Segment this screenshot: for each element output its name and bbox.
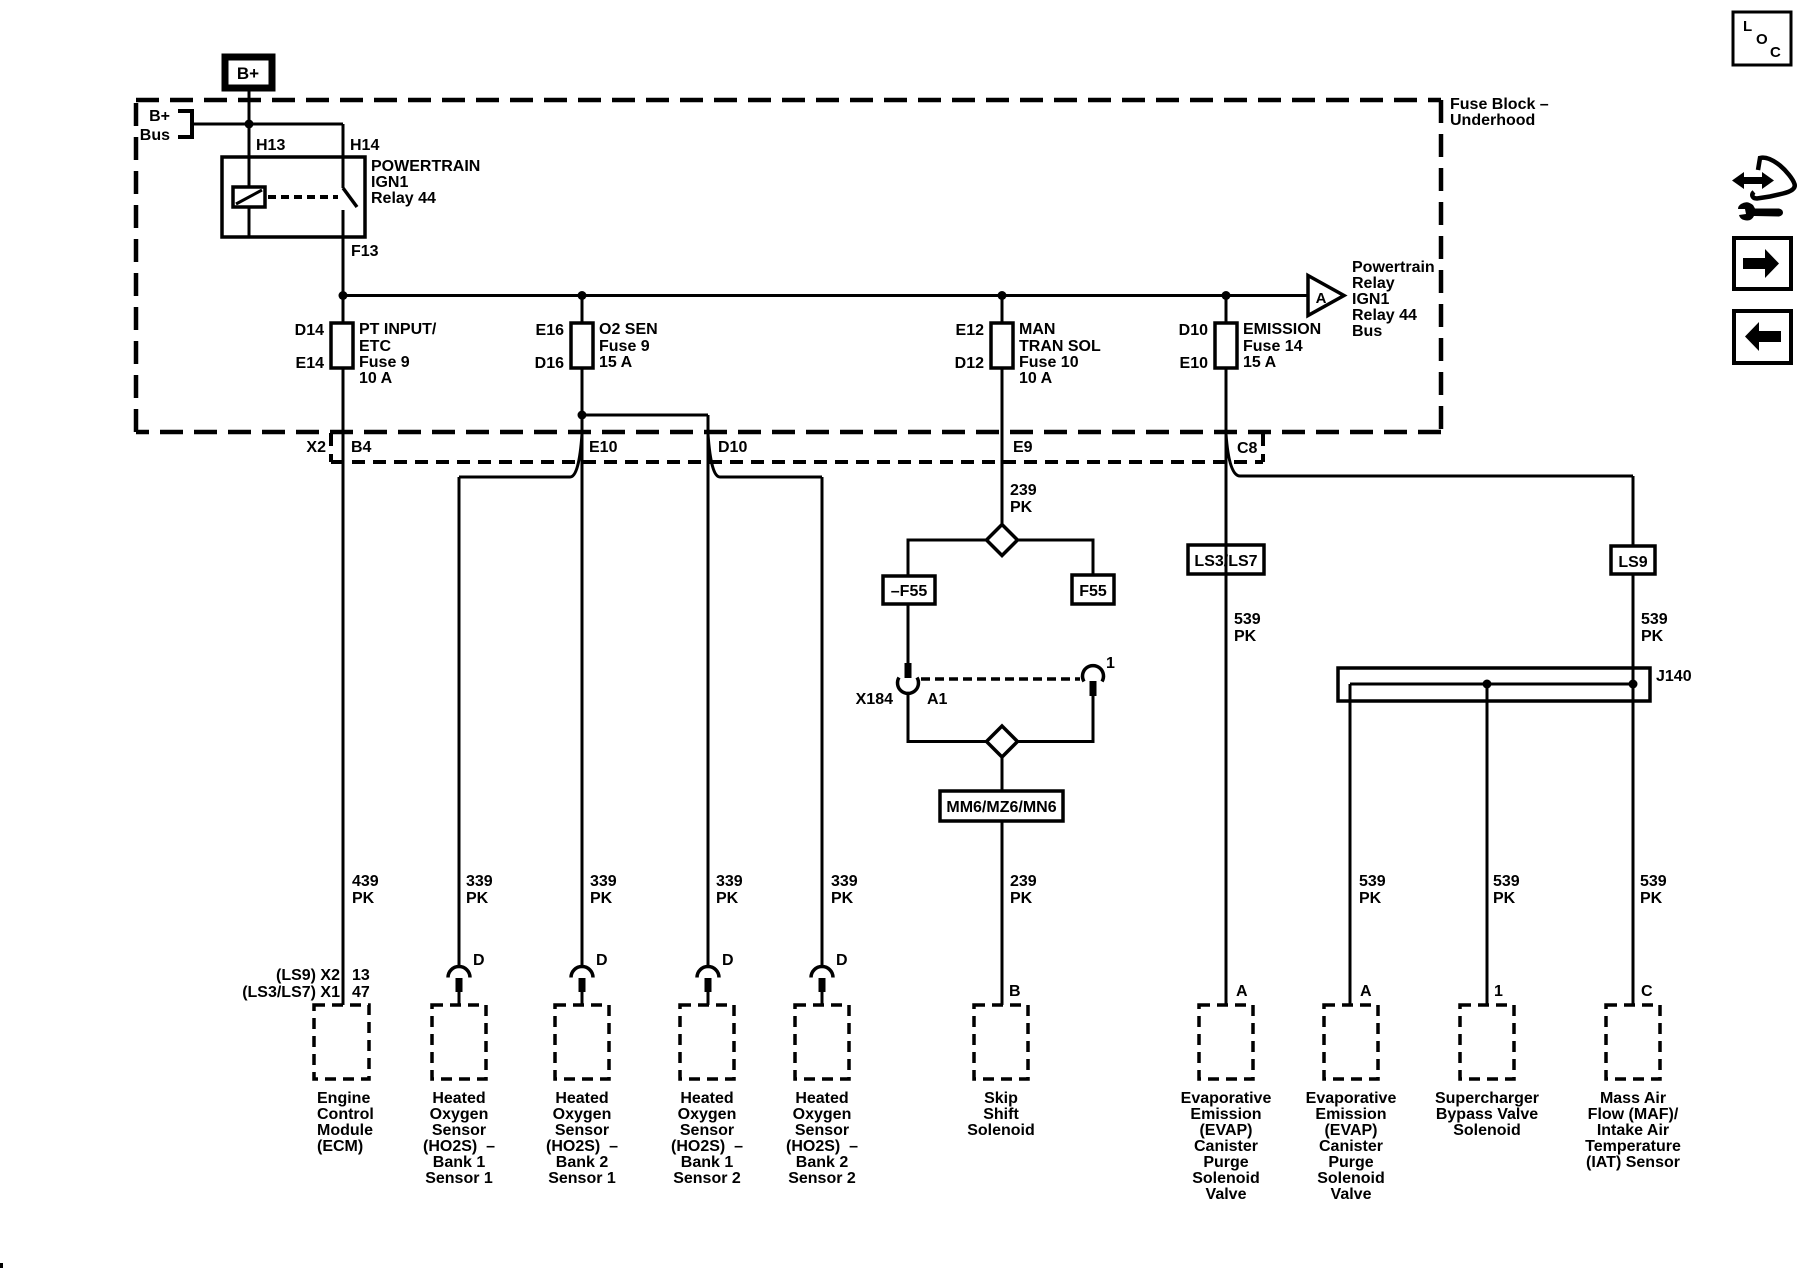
svg-text:Purge: Purge (1203, 1154, 1248, 1171)
wire diamond to -F55 branch (908, 540, 987, 576)
wire label 339 PK (HO2S B2S1) (590, 873, 617, 907)
ECM dashed box (314, 1005, 369, 1079)
svg-text:Oxygen: Oxygen (553, 1106, 612, 1123)
svg-text:O2 SEN: O2 SEN (599, 321, 658, 338)
wire EMISSION fuse to C8 and LS3/LS7 (column x1226) (1225, 368, 1228, 1005)
fuse PT INPUT/ETC Fuse 9 10A (295, 296, 437, 388)
svg-text:ETC: ETC (359, 338, 391, 355)
svg-text:Solenoid: Solenoid (1317, 1170, 1385, 1187)
junction dot at B+ wire (245, 120, 254, 129)
svg-text:Heated: Heated (432, 1090, 485, 1107)
svg-text:B+: B+ (149, 108, 170, 125)
MAF/IAT sensor label (1585, 1090, 1681, 1171)
svg-text:(EVAP): (EVAP) (1324, 1122, 1377, 1139)
svg-text:Bank 2: Bank 2 (556, 1154, 609, 1171)
svg-text:H14: H14 (350, 137, 379, 154)
J140 internal bus wire (1350, 683, 1633, 686)
wire HO2S1 column x459 (458, 477, 461, 966)
svg-text:539: 539 (1359, 873, 1386, 890)
relay switch contact (343, 188, 357, 207)
svg-text:D16: D16 (535, 355, 564, 372)
svg-text:Sensor 2: Sensor 2 (788, 1170, 856, 1187)
wire label 239 PK (skip shift) (1010, 873, 1037, 907)
HO2S B2S1 label (546, 1090, 618, 1187)
svg-text:Sensor 2: Sensor 2 (673, 1170, 741, 1187)
svg-text:Oxygen: Oxygen (430, 1106, 489, 1123)
svg-text:Relay: Relay (1352, 275, 1395, 292)
svg-text:D: D (596, 952, 608, 969)
svg-text:A: A (1236, 983, 1248, 1000)
forward arrow box (1734, 238, 1791, 289)
svg-text:539: 539 (1641, 611, 1668, 628)
svg-text:D12: D12 (955, 355, 984, 372)
svg-text:X184: X184 (856, 691, 893, 708)
svg-text:E12: E12 (956, 322, 985, 339)
connector X184 right pin (male) (1090, 681, 1097, 696)
HO2S4 inline connector (pin D) (811, 952, 848, 1005)
wire diamond to MM6 box (1001, 757, 1004, 791)
wire X184 left to lower diamond (908, 692, 987, 742)
EVAP purge valve 2 label (1306, 1090, 1397, 1203)
wire PT fuse to ECM (column x343) (342, 368, 345, 1005)
svg-text:539: 539 (1493, 873, 1520, 890)
svg-text:47: 47 (352, 984, 370, 1001)
wire label 339 PK (HO2S B1S1) (466, 873, 493, 907)
svg-text:Bus: Bus (1352, 323, 1382, 340)
wire J140 center exit to supercharger bypass (1486, 684, 1489, 1005)
wire B+ down to relay coil pin H13 (248, 88, 251, 187)
svg-text:339: 339 (590, 873, 617, 890)
svg-text:PK: PK (716, 890, 739, 907)
connector X184 left pin (male) (905, 663, 912, 678)
junction dot bus at EMISSION fuse (1222, 291, 1231, 300)
skip shift solenoid label (967, 1090, 1035, 1139)
svg-text:Purge: Purge (1328, 1154, 1373, 1171)
svg-text:10 A: 10 A (359, 370, 393, 387)
svg-text:LS3/LS7: LS3/LS7 (1194, 553, 1257, 570)
svg-text:439: 439 (352, 873, 379, 890)
svg-text:539: 539 (1640, 873, 1667, 890)
ECM pin labels (LS9) X2 13 / (LS3/LS7) X1 47 (242, 967, 370, 1001)
wire coil bottom to relay box bottom (248, 207, 251, 237)
svg-text:O: O (1756, 31, 1768, 48)
svg-text:E14: E14 (296, 355, 325, 372)
svg-text:Sensor: Sensor (432, 1122, 486, 1139)
svg-text:EMISSION: EMISSION (1243, 321, 1321, 338)
svg-text:Fuse 10: Fuse 10 (1019, 354, 1079, 371)
ECM label (317, 1090, 374, 1155)
relay coil-to-switch dashed link (268, 195, 338, 199)
wire -F55 to connector X184 (907, 604, 910, 664)
svg-text:PK: PK (590, 890, 613, 907)
svg-text:Canister: Canister (1194, 1138, 1258, 1155)
svg-text:Oxygen: Oxygen (678, 1106, 737, 1123)
junction dot J140 center (1483, 680, 1492, 689)
wire label 539 PK (supercharger) (1493, 873, 1520, 907)
svg-text:PK: PK (1234, 628, 1257, 645)
svg-text:E16: E16 (536, 322, 565, 339)
svg-text:Canister: Canister (1319, 1138, 1383, 1155)
wire B+ Bus to H14 (192, 123, 343, 126)
wire label 539 PK (EVAP 2) (1359, 873, 1386, 907)
svg-text:PK: PK (466, 890, 489, 907)
svg-text:C: C (1770, 44, 1781, 61)
svg-text:Bank 1: Bank 1 (433, 1154, 486, 1171)
option box MM6/MZ6/MN6 (940, 791, 1063, 821)
svg-text:15 A: 15 A (1243, 354, 1277, 371)
HO2S3 inline connector (pin D) (697, 952, 734, 1005)
svg-text:(LS9) X2: (LS9) X2 (276, 967, 340, 984)
relay pin labels H13 H14 F13 (256, 137, 379, 260)
svg-text:Control: Control (317, 1106, 374, 1123)
wire C8 branch to LS9 (jog) (1226, 434, 1633, 476)
connector X184 mating dashed line (921, 677, 1080, 681)
page corner mark (0, 1263, 3, 1268)
svg-text:1: 1 (1106, 655, 1115, 672)
EVAP purge valve 1 dashed box (1199, 1005, 1253, 1079)
relay coil (233, 187, 265, 207)
HO2S B2S2 label (786, 1090, 858, 1187)
svg-text:L: L (1743, 18, 1752, 35)
svg-text:PT INPUT/: PT INPUT/ (359, 321, 437, 338)
svg-text:PK: PK (1010, 499, 1033, 516)
wire label 339 PK (HO2S B1S2) (716, 873, 743, 907)
svg-text:Heated: Heated (680, 1090, 733, 1107)
wire label 339 PK (HO2S B2S2) (831, 873, 858, 907)
svg-text:Fuse 9: Fuse 9 (599, 338, 650, 355)
B+ Bus tap bracket (140, 108, 343, 144)
skip shift solenoid dashed box (974, 1005, 1028, 1079)
svg-text:339: 339 (716, 873, 743, 890)
wire label 439 PK (ECM) (352, 873, 379, 907)
Powertrain Relay IGN1 Relay 44 Bus label (1352, 259, 1435, 340)
wire HO2S4 column x822 (821, 477, 824, 966)
svg-text:339: 339 (831, 873, 858, 890)
svg-text:(IAT) Sensor: (IAT) Sensor (1586, 1154, 1680, 1171)
svg-text:Evaporative: Evaporative (1181, 1090, 1272, 1107)
svg-text:PK: PK (352, 890, 375, 907)
MAF/IAT sensor dashed box (1606, 1005, 1660, 1079)
svg-text:E10: E10 (1180, 355, 1209, 372)
svg-text:X2: X2 (306, 439, 326, 456)
svg-text:Intake Air: Intake Air (1597, 1122, 1669, 1139)
wire label 539 PK (LS3/LS7) (1234, 611, 1261, 645)
svg-text:Solenoid: Solenoid (1192, 1170, 1260, 1187)
wire branch to D10 (582, 414, 708, 417)
junction dot bus at F13 (339, 291, 348, 300)
svg-text:Relay 44: Relay 44 (371, 190, 436, 207)
svg-text:(LS3/LS7) X1: (LS3/LS7) X1 (242, 984, 340, 1001)
HO2S1 inline connector (pin D) (448, 952, 485, 1005)
junction dot E10 branch (578, 411, 587, 420)
svg-text:E10: E10 (589, 439, 618, 456)
junction dot bus at MAN TRAN fuse (998, 291, 1007, 300)
svg-text:Solenoid: Solenoid (1453, 1122, 1521, 1139)
supercharger bypass valve solenoid dashed box (1460, 1005, 1514, 1079)
wire E10 branch to HO2S bank1 sensor1 (jog) (459, 434, 582, 477)
splice pack J140 box (1338, 668, 1650, 701)
svg-text:(HO2S) –: (HO2S) – (671, 1138, 743, 1155)
svg-text:Fuse 9: Fuse 9 (359, 354, 410, 371)
svg-text:C8: C8 (1237, 440, 1258, 457)
wire J140 right exit to MAF/IAT (1632, 684, 1635, 1005)
svg-text:15 A: 15 A (599, 354, 633, 371)
Fuse Block - Underhood label (1450, 96, 1549, 129)
svg-text:10 A: 10 A (1019, 370, 1053, 387)
connector X184 right socket arc (1083, 666, 1104, 682)
svg-text:A1: A1 (927, 691, 948, 708)
wire H14 down into relay (342, 124, 345, 188)
LOC reference box (1733, 12, 1791, 65)
powertrain relay IGN1 bus wire (343, 294, 1308, 297)
svg-text:Solenoid: Solenoid (967, 1122, 1035, 1139)
B+ power symbol (225, 57, 272, 88)
svg-text:Heated: Heated (555, 1090, 608, 1107)
svg-text:F13: F13 (351, 243, 379, 260)
svg-text:Underhood: Underhood (1450, 112, 1535, 129)
svg-text:D10: D10 (718, 439, 747, 456)
svg-text:A: A (1360, 983, 1372, 1000)
svg-text:J140: J140 (1656, 668, 1692, 685)
relay 44 POWERTRAIN IGN1 box (222, 157, 365, 237)
wire MAN fuse to E9 and diamond (column x1002) (1001, 368, 1004, 525)
svg-text:239: 239 (1010, 482, 1037, 499)
svg-text:PK: PK (1641, 628, 1664, 645)
svg-text:Skip: Skip (984, 1090, 1018, 1107)
HO2S B1S1 dashed box (432, 1005, 486, 1079)
svg-text:Module: Module (317, 1122, 373, 1139)
svg-text:D10: D10 (1179, 322, 1208, 339)
svg-text:Fuse Block –: Fuse Block – (1450, 96, 1549, 113)
svg-text:Flow (MAF)/: Flow (MAF)/ (1588, 1106, 1679, 1123)
svg-text:13: 13 (352, 967, 370, 984)
junction dot bus at O2 fuse (578, 291, 587, 300)
svg-text:POWERTRAIN: POWERTRAIN (371, 158, 480, 175)
svg-text:Sensor 1: Sensor 1 (548, 1170, 616, 1187)
svg-text:Heated: Heated (795, 1090, 848, 1107)
bus arrow A (off-page reference) (1308, 276, 1344, 316)
svg-text:LS9: LS9 (1618, 554, 1647, 571)
wire F13 from relay switch down to ignition bus (342, 210, 345, 296)
svg-text:Evaporative: Evaporative (1306, 1090, 1397, 1107)
svg-text:Oxygen: Oxygen (793, 1106, 852, 1123)
svg-text:A: A (1316, 290, 1327, 307)
svg-text:(EVAP): (EVAP) (1199, 1122, 1252, 1139)
svg-text:Mass Air: Mass Air (1600, 1090, 1666, 1107)
svg-text:Fuse 14: Fuse 14 (1243, 338, 1303, 355)
svg-text:(ECM): (ECM) (317, 1138, 363, 1155)
fuse O2 SEN Fuse 9 15A (535, 296, 658, 373)
svg-text:(HO2S) –: (HO2S) – (786, 1138, 858, 1155)
wire J140 left exit to EVAP valve 2 (1349, 684, 1352, 1005)
svg-text:Supercharger: Supercharger (1435, 1090, 1539, 1107)
svg-text:MM6/MZ6/MN6: MM6/MZ6/MN6 (946, 799, 1056, 816)
svg-text:Sensor: Sensor (795, 1122, 849, 1139)
svg-text:PK: PK (1359, 890, 1382, 907)
svg-text:(HO2S) –: (HO2S) – (546, 1138, 618, 1155)
splice diamond upper (987, 525, 1018, 556)
supercharger bypass valve solenoid label (1435, 1090, 1539, 1139)
option box LS3/LS7 (1188, 545, 1264, 574)
svg-text:Valve: Valve (1331, 1186, 1372, 1203)
svg-text:B4: B4 (351, 439, 372, 456)
HO2S B1S2 label (671, 1090, 743, 1187)
connector X184 left socket arc (898, 678, 919, 694)
fuse block dashed box (Fuse Block - Underhood) (136, 100, 1441, 432)
svg-text:PK: PK (1493, 890, 1516, 907)
wire D10 branch to HO2S bank2 sensor2 (jog) (708, 434, 822, 477)
HO2S B2S2 dashed box (795, 1005, 849, 1079)
svg-text:B+: B+ (237, 64, 259, 83)
svg-text:C: C (1641, 983, 1653, 1000)
option box LS9 (1611, 546, 1655, 574)
svg-text:Bank 1: Bank 1 (681, 1154, 734, 1171)
svg-text:F55: F55 (1079, 583, 1107, 600)
junction dot J140 right (1629, 680, 1638, 689)
relay name label (371, 158, 480, 207)
svg-text:D: D (836, 952, 848, 969)
svg-text:Relay 44: Relay 44 (1352, 307, 1417, 324)
svg-text:D: D (722, 952, 734, 969)
svg-text:(HO2S) –: (HO2S) – (423, 1138, 495, 1155)
diagnostic icon (double arrow, swoosh, wrench) (1732, 158, 1795, 221)
HO2S2 inline connector (pin D) (571, 952, 608, 1005)
svg-text:H13: H13 (256, 137, 285, 154)
wire LS9 column down (1632, 476, 1635, 546)
svg-text:–F55: –F55 (891, 583, 928, 600)
svg-text:Emission: Emission (1190, 1106, 1261, 1123)
HO2S B2S1 dashed box (555, 1005, 609, 1079)
svg-text:Engine: Engine (317, 1090, 370, 1107)
wire label 539 PK (MAF/IAT) (1640, 873, 1667, 907)
option box -F55 (883, 576, 935, 604)
B+ Bus label (140, 108, 170, 144)
fuse EMISSION Fuse 14 15A (1179, 296, 1322, 373)
svg-text:Bus: Bus (140, 127, 170, 144)
wire label 239 PK (upper) (1010, 482, 1037, 516)
svg-text:D: D (473, 952, 485, 969)
wire O2 fuse to E10 and sensors (column x582) (581, 368, 584, 966)
svg-text:Temperature: Temperature (1585, 1138, 1681, 1155)
wire X184 right to lower diamond (1018, 696, 1094, 742)
option box F55 (1072, 575, 1114, 604)
svg-text:339: 339 (466, 873, 493, 890)
svg-text:TRAN SOL: TRAN SOL (1019, 338, 1101, 355)
svg-text:Powertrain: Powertrain (1352, 259, 1435, 276)
svg-text:539: 539 (1234, 611, 1261, 628)
svg-text:PK: PK (1010, 890, 1033, 907)
svg-text:Bank 2: Bank 2 (796, 1154, 849, 1171)
svg-text:B: B (1009, 983, 1021, 1000)
svg-text:IGN1: IGN1 (1352, 291, 1389, 308)
svg-text:Bypass Valve: Bypass Valve (1436, 1106, 1538, 1123)
back arrow box (1734, 311, 1791, 363)
svg-text:IGN1: IGN1 (371, 174, 408, 191)
wire diamond to F55 branch (1018, 540, 1094, 575)
svg-text:Shift: Shift (983, 1106, 1019, 1123)
svg-text:239: 239 (1010, 873, 1037, 890)
svg-text:Emission: Emission (1315, 1106, 1386, 1123)
svg-text:Valve: Valve (1206, 1186, 1247, 1203)
EVAP purge valve 1 label (1181, 1090, 1272, 1203)
svg-text:PK: PK (831, 890, 854, 907)
svg-text:D14: D14 (295, 322, 324, 339)
svg-text:Sensor: Sensor (680, 1122, 734, 1139)
wire D10 down (column x708) (707, 415, 710, 966)
ECM connector row X2 dashed line (331, 433, 1263, 462)
wire LS9 to J140 (1632, 574, 1635, 684)
wire MM6 box to skip shift solenoid (1001, 821, 1004, 1005)
svg-text:PK: PK (1640, 890, 1663, 907)
fuse MAN TRAN SOL Fuse 10 10A (955, 296, 1101, 388)
EVAP purge valve 2 dashed box (1324, 1005, 1378, 1079)
svg-text:MAN: MAN (1019, 321, 1055, 338)
HO2S B1S1 label (423, 1090, 495, 1187)
svg-text:Sensor 1: Sensor 1 (425, 1170, 493, 1187)
svg-text:E9: E9 (1013, 439, 1033, 456)
svg-text:1: 1 (1494, 983, 1503, 1000)
wire label 539 PK (LS9) (1641, 611, 1668, 645)
HO2S B1S2 dashed box (680, 1005, 734, 1079)
svg-text:Sensor: Sensor (555, 1122, 609, 1139)
splice diamond lower (987, 726, 1018, 757)
